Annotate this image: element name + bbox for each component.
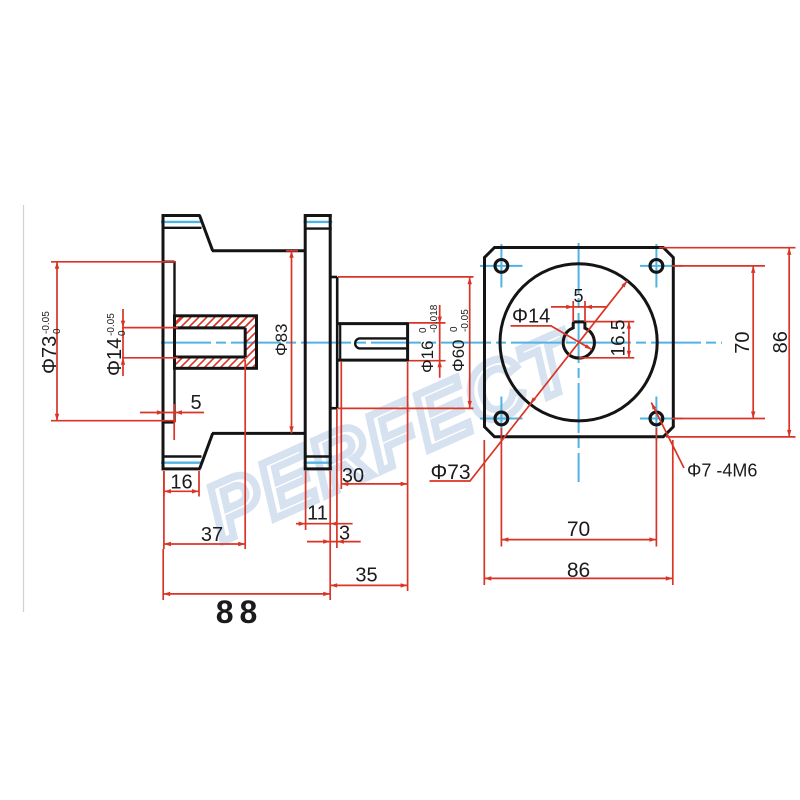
svg-text:70: 70 [732, 331, 754, 353]
scan border artifact [23, 205, 25, 612]
dimension 86 bottom [484, 440, 673, 585]
front flange outline [162, 214, 213, 470]
dimension 70 right [672, 266, 765, 419]
svg-text:Φ14: Φ14 [104, 338, 126, 376]
gearbox body [212, 251, 305, 434]
main horizontal centerline [161, 342, 722, 344]
bolt hole top-right [650, 260, 663, 273]
svg-text:5: 5 [573, 286, 583, 306]
dimension 11 [296, 471, 353, 530]
dimension 70 bottom [501, 428, 656, 547]
bolt hole bottom-right [650, 412, 663, 425]
right view vertical centerline [578, 243, 580, 482]
svg-text:86: 86 [770, 331, 792, 353]
centerline flange ear bottom-left [161, 462, 203, 464]
watermark PERFECT [193, 315, 592, 558]
svg-text:-0.05: -0.05 [460, 309, 471, 332]
svg-text:-0.05: -0.05 [41, 311, 52, 334]
dimension phi14 left [121, 309, 178, 376]
dimension 30 [341, 361, 407, 591]
square flange plate [485, 248, 674, 437]
svg-text:70: 70 [567, 518, 590, 541]
hub with bore [175, 316, 257, 369]
svg-text:86: 86 [567, 559, 590, 582]
mounting plate side view [304, 214, 332, 470]
svg-text:0: 0 [449, 326, 460, 332]
bolt hole bottom-left [495, 412, 508, 425]
centerline plate ear top [304, 221, 333, 223]
dimension 5 keyway width [551, 301, 608, 322]
hub hatching [160, 300, 328, 380]
svg-text:Φ14: Φ14 [512, 306, 550, 328]
svg-text:-0.018: -0.018 [429, 304, 440, 333]
dimension 16.5 keyway depth [579, 322, 635, 358]
dimension 86 right [659, 248, 796, 437]
pilot boss [330, 277, 337, 408]
svg-text:5: 5 [190, 392, 201, 414]
svg-text:0: 0 [117, 330, 128, 336]
svg-text:-0.05: -0.05 [106, 313, 117, 336]
bolt hole crosshairs [480, 244, 683, 441]
svg-text:88: 88 [216, 594, 264, 630]
flange recess step [163, 262, 175, 423]
big circle phi73 [500, 264, 657, 421]
dimension phi83 [286, 251, 298, 434]
svg-text:Φ73: Φ73 [39, 336, 61, 374]
dimension phi16 shaft [409, 305, 446, 378]
svg-text:3: 3 [339, 523, 350, 545]
output shaft [337, 322, 407, 361]
dimension 37 [164, 360, 245, 549]
svg-text:11: 11 [307, 503, 328, 525]
center bore with keyway [563, 322, 594, 358]
dimension phi60 pilot [338, 277, 474, 409]
bolt hole top-left [495, 260, 508, 273]
svg-text:30: 30 [342, 465, 364, 487]
shaft keyway slot [355, 338, 406, 348]
dimension 88 [163, 471, 330, 600]
svg-text:Φ16: Φ16 [418, 341, 437, 373]
dimension 3 [307, 409, 361, 548]
svg-text:35: 35 [355, 565, 377, 587]
svg-text:Φ7 -4M6: Φ7 -4M6 [687, 461, 757, 481]
svg-text:0: 0 [52, 328, 63, 334]
centerline flange ear top-left [161, 221, 203, 223]
dimension 16 [164, 471, 199, 497]
svg-text:37: 37 [201, 524, 223, 546]
dimension phi73 left [51, 262, 176, 421]
svg-text:0: 0 [418, 327, 429, 333]
svg-text:16: 16 [170, 472, 192, 494]
dimension 5 recess depth [140, 404, 204, 440]
centerline plate ear bottom [304, 462, 333, 464]
dimension 35 [330, 583, 407, 587]
svg-text:Φ83: Φ83 [272, 324, 291, 356]
svg-text:Φ60: Φ60 [449, 340, 468, 372]
svg-text:16.5: 16.5 [609, 320, 630, 357]
